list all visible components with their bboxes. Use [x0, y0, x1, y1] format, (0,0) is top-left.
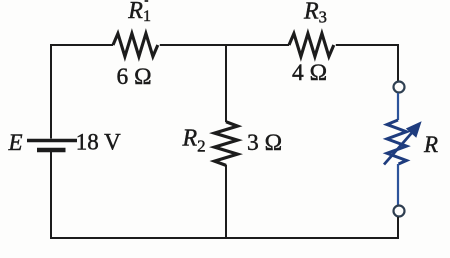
battery E short plate — [37, 148, 66, 153]
terminal top circle — [394, 82, 405, 93]
resistor R2 — [215, 122, 238, 166]
wire right lower — [397, 217, 399, 239]
svg-text:E: E — [8, 130, 23, 155]
wire top-left segment — [51, 44, 113, 46]
svg-text:18 V: 18 V — [76, 130, 121, 155]
svg-text:R1: R1 — [127, 0, 151, 25]
wire top-middle segment — [160, 44, 289, 46]
svg-text:3 Ω: 3 Ω — [247, 130, 282, 156]
svg-text:R: R — [423, 132, 438, 157]
wire blue lower — [397, 164, 399, 205]
resistor R1 — [113, 34, 158, 57]
wire left lower — [50, 152, 52, 239]
cropped glyph fragment above R1 — [145, 0, 149, 2]
wire middle upper — [225, 45, 227, 122]
wire right upper — [397, 44, 399, 81]
resistor R3 — [289, 34, 334, 57]
svg-text:6 Ω: 6 Ω — [117, 64, 152, 90]
rheostat arrow shaft — [384, 132, 413, 165]
wire left upper — [50, 44, 52, 139]
battery E long plate — [27, 139, 77, 143]
rheostat arrow head — [407, 123, 420, 137]
wire top-right segment — [336, 44, 399, 46]
wire middle lower — [225, 165, 227, 239]
rheostat R zigzag — [387, 120, 407, 164]
wire blue upper — [397, 93, 399, 120]
svg-text:R3: R3 — [303, 0, 327, 27]
svg-text:R2: R2 — [182, 126, 206, 156]
svg-text:4 Ω: 4 Ω — [292, 60, 327, 86]
wire bottom — [50, 237, 399, 239]
terminal bottom circle — [394, 206, 405, 217]
